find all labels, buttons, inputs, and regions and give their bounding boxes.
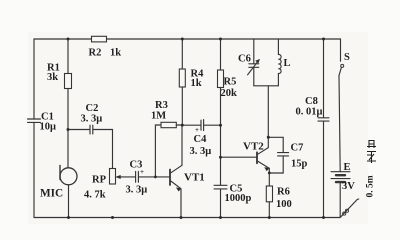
capacitor C5 xyxy=(214,185,227,189)
svg-text:C8: C8 xyxy=(305,96,318,107)
svg-text:0. 01μ: 0. 01μ xyxy=(296,107,323,118)
wire tank right branch top xyxy=(277,39,279,55)
svg-text:MIC: MIC xyxy=(40,188,63,200)
capacitor C7 xyxy=(278,153,289,156)
node C7 emitter xyxy=(268,172,271,175)
svg-text:R6: R6 xyxy=(277,187,290,198)
svg-text:3. 3μ: 3. 3μ xyxy=(190,146,212,157)
svg-text:+: + xyxy=(140,168,144,176)
svg-text:4. 7k: 4. 7k xyxy=(84,190,106,201)
inductor L xyxy=(278,54,281,73)
wire battery to bottom corner xyxy=(339,182,341,217)
wire R1 to MIC xyxy=(67,89,69,168)
node C7 collector xyxy=(267,136,270,139)
wire C4 left lead xyxy=(182,124,200,126)
wire tank right branch bottom xyxy=(277,74,279,86)
wire MIC to bottom xyxy=(68,185,70,218)
node base VT2 xyxy=(219,156,222,159)
svg-text:C7: C7 xyxy=(291,143,304,154)
node R3 base xyxy=(154,176,157,179)
wire VT1 emitter to bottom xyxy=(180,189,182,218)
wire RP wiper to C3 xyxy=(120,176,136,178)
wire left rail lower xyxy=(33,122,35,217)
capacitor C8 xyxy=(318,118,329,121)
wire R1 top lead xyxy=(67,39,69,74)
resistor R6 xyxy=(266,186,272,202)
label antenna 0.5m line xyxy=(366,175,376,197)
node R3 C4 collector xyxy=(181,124,184,127)
wire switch to battery xyxy=(339,76,340,172)
wire C7 branch top xyxy=(268,137,283,152)
node top R1 xyxy=(67,38,70,41)
svg-text:1M: 1M xyxy=(151,111,166,122)
node bottom C5 xyxy=(219,216,222,219)
wire C8 bottom lead xyxy=(323,121,325,217)
node C2 tap xyxy=(67,128,70,131)
wire left rail upper xyxy=(33,39,35,119)
svg-text:3V: 3V xyxy=(342,181,355,192)
wire R3 left leg xyxy=(155,125,161,177)
svg-text:C4: C4 xyxy=(194,134,208,145)
wire R4 bottom lead xyxy=(181,87,183,125)
svg-text:100: 100 xyxy=(276,199,292,210)
svg-text:3. 3μ: 3. 3μ xyxy=(126,185,148,196)
node top R4 xyxy=(181,38,184,41)
svg-text:1000p: 1000p xyxy=(225,193,252,204)
capacitor C6 variable xyxy=(249,64,259,68)
resistor R3 xyxy=(161,122,176,127)
svg-text:3. 3μ: 3. 3μ xyxy=(81,114,103,125)
wire bottom rail xyxy=(34,217,340,219)
svg-text:R5: R5 xyxy=(224,77,237,88)
antenna wire 0.5m xyxy=(341,199,359,217)
switch S xyxy=(341,64,344,67)
svg-text:1k: 1k xyxy=(110,48,121,59)
svg-text:1k: 1k xyxy=(191,78,202,89)
capacitor C4 xyxy=(201,120,204,131)
wire VT2 emitter to R6 xyxy=(268,168,270,186)
wire R5 to C5 xyxy=(220,88,222,186)
wire VT2 collector to tank xyxy=(267,86,269,148)
wire R4 top lead xyxy=(181,39,183,69)
svg-text:0. 5m: 0. 5m xyxy=(366,175,376,197)
wire R5 top lead xyxy=(220,39,222,70)
svg-text:RP: RP xyxy=(92,175,107,186)
node bottom VT1 xyxy=(180,216,183,219)
resistor R1 xyxy=(65,74,72,89)
svg-text:VT1: VT1 xyxy=(184,172,205,184)
wire C5 to bottom xyxy=(220,189,222,218)
svg-text:C2: C2 xyxy=(86,103,99,114)
potentiometer RP xyxy=(110,169,116,185)
svg-text:R2: R2 xyxy=(89,48,102,59)
svg-text:R3: R3 xyxy=(155,100,168,111)
wire top rail xyxy=(34,38,341,40)
wire C3 to VT1 base xyxy=(139,176,170,178)
transistor VT2 xyxy=(256,152,258,163)
wire C8 top lead xyxy=(323,39,325,117)
wire tank bottom xyxy=(254,85,279,87)
node C4 R5 xyxy=(219,124,222,127)
wire C2 left lead xyxy=(68,129,90,131)
wire R3 right lead xyxy=(176,124,182,126)
wire C2 to RP xyxy=(93,130,112,169)
node bottom RP xyxy=(111,216,114,219)
svg-text:C6: C6 xyxy=(238,54,251,65)
capacitor C2 xyxy=(90,125,93,134)
wire C4 right lead xyxy=(204,124,221,126)
battery E xyxy=(331,171,350,173)
capacitor C3 xyxy=(136,172,139,183)
wire R6 bottom lead xyxy=(268,202,270,218)
resistor R4 xyxy=(179,69,185,87)
node bottom R6 xyxy=(268,216,271,219)
wire tank left lower xyxy=(253,67,255,86)
resistor R5 xyxy=(218,70,224,88)
label antenna hanzi tuo xyxy=(367,140,376,163)
node top R5 xyxy=(219,38,222,41)
svg-text:+: + xyxy=(195,126,199,134)
svg-text:20k: 20k xyxy=(221,88,238,99)
wire VT1 collector xyxy=(181,125,183,165)
transistor VT1 xyxy=(169,170,171,186)
wire switch top lead xyxy=(340,39,342,61)
resistor R2 xyxy=(92,36,107,42)
wire VT2 base lead xyxy=(221,156,257,158)
node top C8 xyxy=(322,38,325,41)
svg-text:S: S xyxy=(344,52,350,63)
svg-text:VT2: VT2 xyxy=(243,141,264,153)
wire tank left branch xyxy=(253,39,255,63)
svg-text:L: L xyxy=(284,58,291,69)
microphone MIC xyxy=(60,168,77,185)
svg-text:15p: 15p xyxy=(291,159,308,170)
wire C7 return to emitter xyxy=(269,156,283,173)
svg-text:3k: 3k xyxy=(47,72,58,83)
scan shadow under bottom rail xyxy=(40,221,335,223)
svg-text:E: E xyxy=(344,162,351,173)
svg-text:10μ: 10μ xyxy=(40,122,57,133)
node bottom C8 xyxy=(322,216,325,219)
capacitor C1 xyxy=(28,119,41,122)
node bottom MIC xyxy=(67,216,70,219)
